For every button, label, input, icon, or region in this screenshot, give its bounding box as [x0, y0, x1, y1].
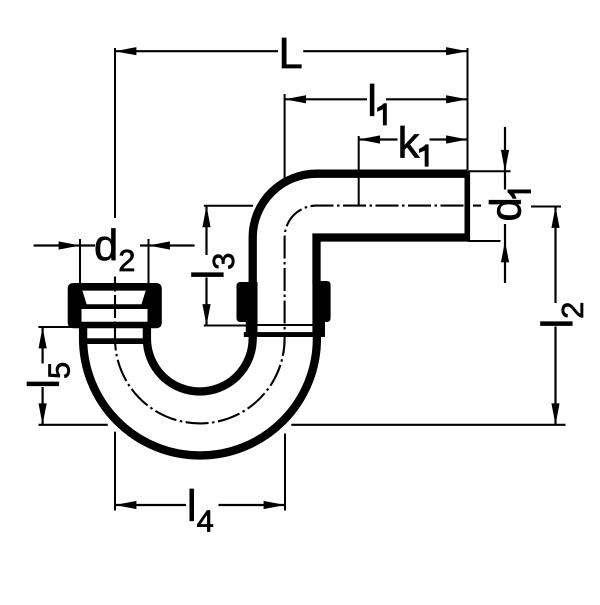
svg-text:k: k [398, 120, 420, 168]
dimension d2: right extension line [148, 239, 150, 283]
dimension d2: line with outside arrows [34, 244, 95, 246]
dimension d2: left extension line [79, 239, 81, 283]
outlet pipe end cap [464, 171, 470, 241]
l4 extension line right (middle leg centerline) [284, 434, 286, 511]
dimension d1: bottom tick [468, 240, 501, 242]
dimension l4: right arrow [264, 501, 285, 509]
union: interior bottom thin line [253, 324, 316, 326]
dimension d1: lower line with up arrow [504, 224, 506, 283]
dimension l3: bottom arrow (pointing down) [202, 304, 210, 325]
dimension l1: right arrow [446, 95, 467, 103]
dimension l3: top tick [204, 205, 253, 207]
inlet socket bottom bar [83, 338, 148, 344]
pipe walls: U-bend inner arc [147, 327, 253, 392]
union: left gasket ring + thickened wall [237, 282, 258, 337]
dimension k1: left extension line [358, 136, 360, 206]
dimension d2: right arrow (pointing left) [149, 241, 170, 249]
dimension l5: top tick [38, 326, 75, 328]
pipe walls: U-bend outer arc [83, 327, 317, 455]
dimension d1: upper line with down arrow [504, 127, 506, 190]
dimension k1: left arrow [359, 135, 380, 143]
dimension l5: line [41, 327, 43, 364]
pipe walls: outlet pipe top wall + elbow outer arc + middle pipe left wall [253, 174, 468, 284]
svg-text:l: l [367, 77, 377, 125]
dimension L / l1 / k1: right extension line [467, 48, 469, 170]
dimension l4: left arrow [115, 501, 136, 509]
dimension l5: top arrow (pointing up) [39, 327, 47, 348]
dimension k1: right arrow [446, 135, 467, 143]
union: right gasket ring + thickened wall [312, 281, 330, 337]
dimension L: left arrow [115, 47, 136, 55]
dimension d2: left arrow (pointing right) [59, 241, 80, 249]
pipe centerline (dash-dot) [115, 206, 481, 424]
dimension d1: top tick [468, 170, 511, 172]
dimension l3: top arrow (pointing up) [202, 206, 210, 227]
dimension L: left extension line [114, 48, 116, 218]
dimension l3: line [205, 206, 207, 255]
dimension l1: left arrow [285, 95, 306, 103]
dimension l1: line [285, 98, 367, 100]
dimension L: right arrow [446, 47, 467, 55]
pipe walls: outlet pipe bottom wall + elbow inner corner + middle pipe right wall [317, 238, 468, 284]
dimension l5: bottom arrow (pointing down) [39, 403, 47, 424]
dimension l2: top arrow (pointing up) [551, 207, 559, 228]
svg-text:d: d [482, 197, 530, 221]
l4 extension line left (left leg centerline) [114, 432, 116, 511]
dimension l2: line [554, 207, 556, 304]
dimension L: line [115, 50, 278, 52]
inlet socket nut (with white windows) [68, 283, 162, 328]
dimension l4: line [115, 504, 186, 506]
dimension l2: bottom arrow (pointing down) [551, 403, 559, 424]
dimension l3: bottom tick [204, 325, 249, 327]
reference line: U-bend centerline bottom tangent [39, 424, 108, 426]
dimension k1: line [359, 138, 398, 140]
svg-text:L: L [279, 30, 303, 78]
dimension d1: label (rotated) [482, 190, 531, 222]
dimension l2: top tick (centerline extension) [531, 205, 561, 207]
union: bottom bar [244, 332, 325, 337]
dimension l1: left extension line [284, 94, 286, 180]
